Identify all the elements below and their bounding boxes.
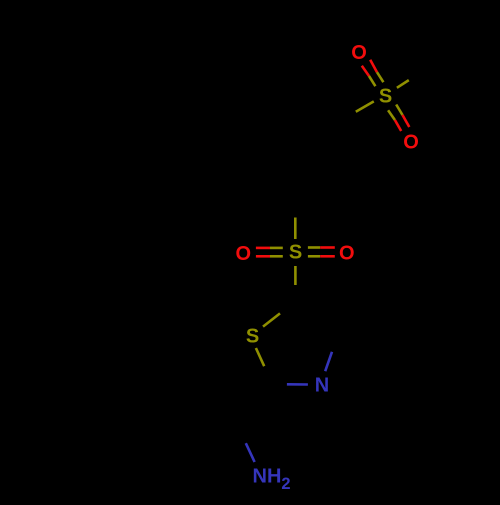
bond S5=O4 line b (sulfur half) <box>270 255 283 258</box>
bond CH2-NH2 (nitrogen half) <box>246 443 255 462</box>
bond C2=N3 ring (nitrogen half) <box>287 383 308 386</box>
bond S2=O3 line b (oxygen half) <box>403 115 410 127</box>
svg-text:O: O <box>236 243 252 265</box>
bond S5=O6 line b (sulfur half) <box>308 255 320 258</box>
bond CH2-S5 (sulfur half stub above) <box>294 218 297 240</box>
bond S5=O6 line b (oxygen half) <box>320 255 335 258</box>
svg-text:O: O <box>339 242 355 264</box>
bond S2=O1 line a (sulfur half) <box>369 76 375 86</box>
bond S5-C5ring (sulfur half stub below) <box>294 266 297 285</box>
bond S2=O3 line b (sulfur half) <box>396 105 402 116</box>
bond S2=O3 line a (sulfur half) <box>388 110 395 120</box>
svg-text:O: O <box>403 132 419 154</box>
bond S1-C5 ring (sulfur half) <box>263 313 280 326</box>
svg-text:S: S <box>246 325 259 347</box>
bond S2-CH2 chain (sulfur half stub) <box>356 101 374 111</box>
bond S2=O1 line a (oxygen half) <box>362 66 369 76</box>
bond S5=O4 line a (sulfur half) <box>270 247 283 250</box>
bond S1-C2 ring (sulfur half) <box>256 348 264 366</box>
bond S5=O4 line b (oxygen half) <box>256 255 270 258</box>
svg-text:N: N <box>315 375 329 397</box>
svg-text:S: S <box>379 86 392 108</box>
bond S5=O6 line a (sulfur half) <box>308 246 320 249</box>
bond S2=O3 line a (oxygen half) <box>395 120 401 131</box>
svg-text:O: O <box>351 42 367 64</box>
bond S2-CH3 (sulfur half stub) <box>397 80 409 88</box>
bond S2=O1 line b (oxygen half) <box>370 60 377 72</box>
bond S5=O6 line a (oxygen half) <box>320 246 335 249</box>
svg-text:S: S <box>289 242 302 264</box>
bond S5=O4 line a (oxygen half) <box>256 247 270 250</box>
bond S2=O1 line b (sulfur half) <box>377 72 383 82</box>
bond N3-C4 ring (nitrogen half) <box>325 352 332 371</box>
